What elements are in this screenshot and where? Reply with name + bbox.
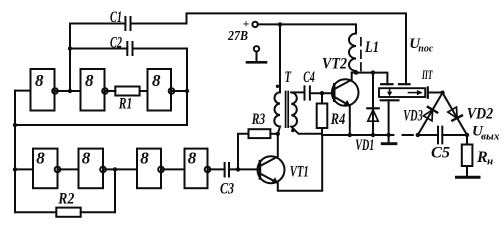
svg-text:27В: 27В [227,29,248,44]
logic gate D2.4 [185,148,211,188]
svg-text:C4: C4 [303,69,315,86]
wire R2 to right drop [81,211,115,213]
ground terminal below 27V [247,46,266,62]
node junction output [465,133,469,137]
logic gate D2.1 [33,148,60,188]
probe bar left [381,83,392,85]
primary winding [274,92,280,134]
wire primary feed [279,24,281,92]
node junction left-bottom-row [13,167,17,171]
wire D2.3 to D2.4 [161,168,185,170]
transistor VT1 [258,134,323,191]
wire C2 to D1.3 output and cross line [15,49,187,126]
svg-text:пос: пос [418,43,433,55]
logic gate D1.3 [148,69,175,111]
node junction R3 tap [236,167,240,171]
wire left vertical bus [14,91,16,213]
logic gate D2.3 [137,148,164,188]
svg-text:R2: R2 [57,191,74,208]
node junction R2 tap [113,167,117,171]
wire C5 to output node [442,134,467,136]
wire D2.1 to D2.2 [58,168,79,170]
output bar [427,87,429,97]
node junction C2 tap [68,46,72,50]
svg-text:8: 8 [36,148,45,167]
node junction VT2 emitter [348,133,352,137]
PT body [379,88,425,97]
wire VD3 diagonal [418,93,443,135]
label Uvyh [472,124,500,143]
terminal +27V [227,18,258,44]
svg-text:R1: R1 [118,96,132,113]
node junction C1C2 tap [68,89,72,93]
svg-text:8: 8 [35,71,44,90]
resistor R4 [317,93,346,135]
svg-text:VD1: VD1 [355,137,374,154]
svg-text:вых: вых [481,130,500,142]
node junction VT1 collector [276,132,280,136]
svg-text:8: 8 [85,71,94,90]
node junction transformer feed [278,22,282,26]
resistor R1 [115,87,139,113]
node junction left-cross [13,123,17,127]
core [286,92,289,128]
wire R3 to collector node [270,133,277,135]
svg-text:VD3: VD3 [403,107,423,124]
wire bottom probe to ground rail [388,100,390,135]
svg-text:VD2: VD2 [467,105,494,122]
stripline PT [379,67,443,135]
svg-text:C3: C3 [220,181,234,198]
logic gate D1.2 [81,69,108,111]
wire C3 to VT1 base [229,168,260,170]
capacitor C2 [70,35,133,56]
svg-text:ПТ: ПТ [421,67,433,82]
node junction R4 top [320,91,324,95]
resistor R2 [56,191,80,217]
wire gate D1.1 input [15,90,31,92]
probe bar right (Upos) [399,83,410,85]
wire D1.2 out to R1 [105,90,116,92]
capacitor C3 [220,163,234,198]
inductor L1 [349,34,379,73]
wire secondary top to C4 [291,91,304,93]
capacitor C1 [70,9,131,30]
wire D2.1 input [15,168,33,170]
svg-text:T: T [285,69,292,86]
wire R2 bottom left [15,211,56,213]
wire C1 to top rail and feedback rail to PT [131,13,407,84]
node junction VD1 top [371,70,375,74]
wire collector rail to PT probe [352,73,388,85]
wire R3 left elbow [238,134,249,170]
diode VD3 [403,107,437,125]
svg-text:C1: C1 [110,9,122,26]
polarity dot primary [276,85,279,88]
svg-text:C2: C2 [110,35,122,52]
wire 27V rail [258,24,356,33]
capacitor C4 [303,69,315,100]
arrow right inside [408,92,417,94]
transistor VT2 [322,55,359,135]
ground under Rn [457,176,480,179]
svg-text:R4: R4 [330,111,345,128]
wire dashed rail segment [403,134,413,136]
wire R2 right drop [114,169,116,212]
wire to C5 [418,134,438,136]
svg-text:8: 8 [188,148,197,167]
wire R1 to D1.3 [140,90,148,92]
node junction VD1 bottom [371,133,375,137]
secondary winding [291,92,322,133]
diode VD1 [355,73,378,155]
arrow down inside [389,88,391,92]
bottom probe bar [381,99,399,101]
svg-text:VT2: VT2 [322,55,347,72]
svg-text:8: 8 [152,71,161,90]
wire C1C2 vertical tap [69,24,71,92]
wire D1.1 out to D1.2 [55,90,81,92]
node apex junction [440,91,444,95]
wire VD2 diagonal [443,93,468,135]
ground [382,135,396,144]
label Upos [409,36,433,55]
node junction L1 bottom [354,70,358,74]
wire D2.2 to D2.3 [103,168,137,170]
capacitor C5 [431,127,450,162]
node junction D1.3 output [185,89,189,93]
node junction ground stub [386,133,390,137]
logic gate D1.1 [31,69,58,111]
polarity dot secondary [291,129,294,132]
wire output to apex [428,92,443,94]
svg-text:8: 8 [140,148,149,167]
resistor Rn [462,135,493,177]
svg-text:VT1: VT1 [290,164,309,181]
wire bottom common rail [322,134,393,136]
wire D1.3 out [171,90,187,92]
svg-text:R3: R3 [251,111,265,128]
svg-text:C5: C5 [431,145,450,162]
svg-text:н: н [487,156,493,168]
transformer T [274,24,322,133]
svg-text:8: 8 [82,148,91,167]
svg-text:L1: L1 [364,39,379,56]
node junction VD3 anode [416,133,420,137]
logic gate D2.2 [79,148,106,188]
wire D2.4 to C3 [208,168,225,170]
wire C4 to VT2 base [310,92,334,94]
diode VD2 [448,105,493,122]
resistor R3 [249,111,271,138]
